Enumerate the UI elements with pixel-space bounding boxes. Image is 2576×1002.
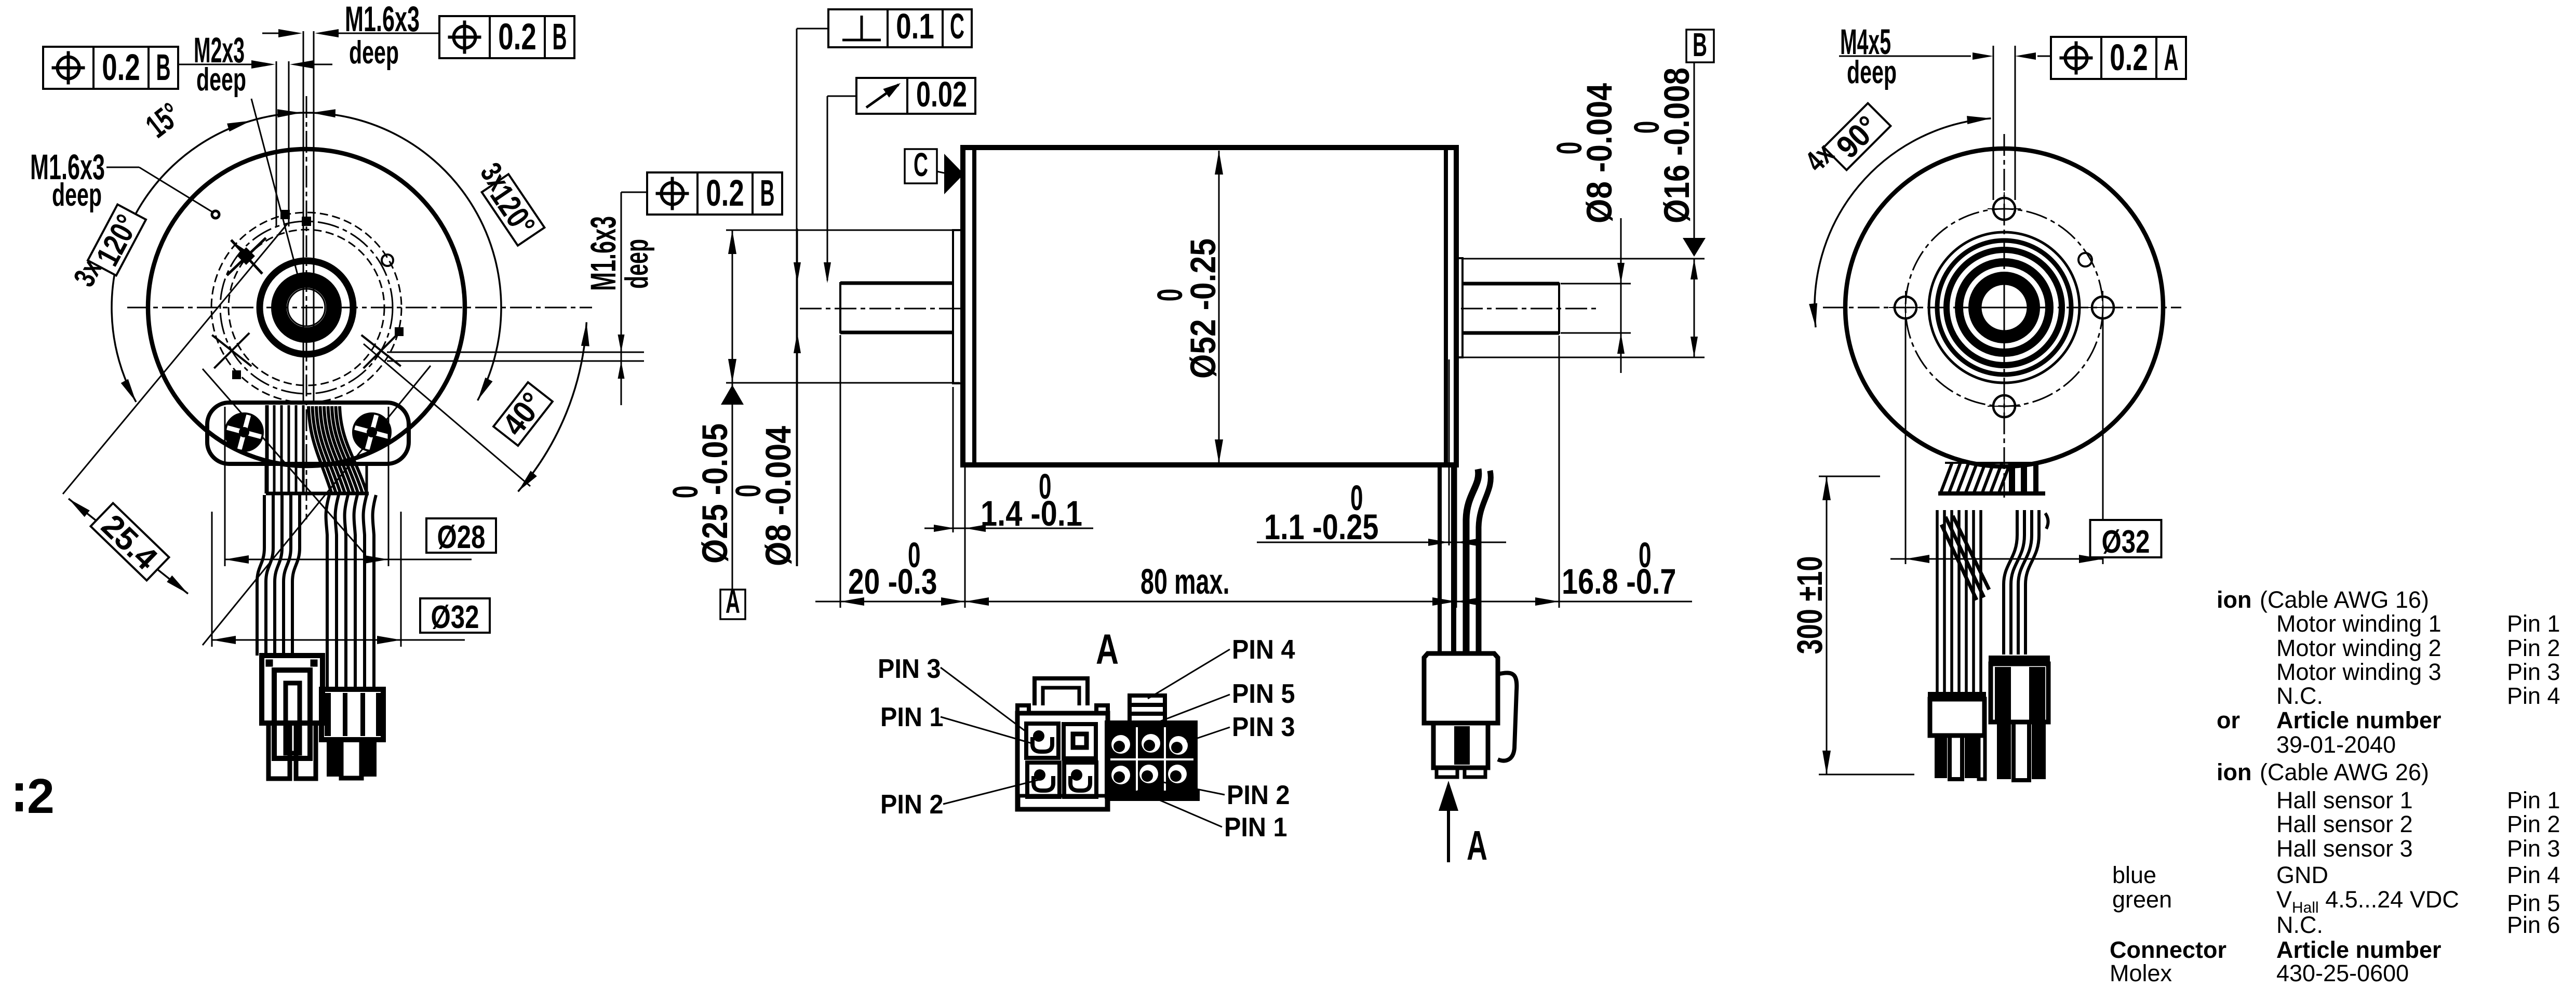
40 deg dimension arc xyxy=(518,322,587,491)
40 deg arc bottom arrow xyxy=(518,471,537,491)
svg-text:PIN 2: PIN 2 xyxy=(1227,780,1290,810)
dia8 rear dim line xyxy=(1620,218,1622,373)
datum A stem xyxy=(732,383,733,590)
datum A triangle xyxy=(721,385,744,405)
rear ring 5 xyxy=(1929,232,2079,383)
svg-text:80 max.: 80 max. xyxy=(1141,562,1230,602)
ext line M2 hole right xyxy=(288,61,290,226)
front view horizontal centerline xyxy=(127,307,592,309)
svg-text:0: 0 xyxy=(1549,142,1589,155)
runout leader h xyxy=(827,96,856,97)
svg-text:deep: deep xyxy=(619,239,655,289)
svg-text:39-01-2040: 39-01-2040 xyxy=(2276,731,2396,758)
svg-text:20 -0.3: 20 -0.3 xyxy=(848,562,937,602)
dim line 20 xyxy=(840,601,965,603)
svg-text:B: B xyxy=(1693,26,1707,63)
leader vertical from position frame xyxy=(621,192,622,405)
arc arrow at 106 deg for 15 deg dim xyxy=(227,121,251,131)
svg-text:blue: blue xyxy=(2112,862,2156,888)
svg-text:A: A xyxy=(2164,37,2179,78)
svg-text:Pin 1: Pin 1 xyxy=(2507,787,2560,813)
M4 hole xyxy=(1993,198,2015,220)
300 dim line xyxy=(1826,476,1828,774)
runout leader arrow xyxy=(824,262,831,283)
svg-text:A: A xyxy=(1467,822,1487,869)
dim line 80 xyxy=(965,601,1456,603)
25.4 extension line upper xyxy=(63,223,288,494)
arrow 80 right xyxy=(1432,597,1456,606)
rear ring 4 xyxy=(1937,241,2071,375)
dia28 arrow left xyxy=(225,555,249,564)
svg-text:ion: ion xyxy=(2217,586,2251,613)
rear center cross h xyxy=(1975,307,2033,309)
datum C triangle xyxy=(944,154,964,194)
rear cable boot hatch xyxy=(1941,462,2010,492)
boot bottom edge xyxy=(1938,491,2045,496)
arc arrow at 137 deg xyxy=(235,243,252,260)
svg-text:Molex: Molex xyxy=(2110,960,2172,986)
leader end dot xyxy=(212,211,219,218)
svg-text:Pin 6: Pin 6 xyxy=(2507,912,2560,938)
svg-text:Hall sensor 3: Hall sensor 3 xyxy=(2276,835,2413,862)
ribbon cable bend hatch xyxy=(308,406,367,492)
svg-text:GND: GND xyxy=(2276,862,2328,888)
rear shaft D8 xyxy=(1463,284,1559,333)
svg-text:16.8 -0.7: 16.8 -0.7 xyxy=(1562,562,1676,602)
svg-text:C: C xyxy=(914,146,928,183)
svg-text:0.2: 0.2 xyxy=(498,17,536,58)
svg-text:0.2: 0.2 xyxy=(102,47,140,88)
svg-text:0: 0 xyxy=(1350,478,1363,518)
rear flange inner edge xyxy=(1444,148,1448,465)
svg-text:B: B xyxy=(760,173,775,214)
dia8 front arrow bottom xyxy=(794,332,801,353)
label 120 left xyxy=(87,204,148,277)
detail left connector socket xyxy=(1064,724,1096,758)
svg-text:0: 0 xyxy=(1039,466,1052,506)
dia28 ext line left xyxy=(224,407,226,566)
marker square lower-left xyxy=(232,370,241,379)
datum C box xyxy=(905,149,937,183)
detail left connector body xyxy=(1017,678,1108,809)
M2 dim arrow left xyxy=(251,60,275,69)
left connector side view xyxy=(262,656,323,779)
label 40 deg xyxy=(492,381,555,448)
right connector side view xyxy=(321,689,383,778)
dia28 arrow right xyxy=(365,555,388,564)
svg-text:Article number: Article number xyxy=(2276,707,2441,733)
svg-text:Pin 1: Pin 1 xyxy=(2507,610,2560,637)
arrow 1.4 right xyxy=(965,525,986,532)
datum B box xyxy=(1686,30,1714,62)
dia8 rear arrow top xyxy=(1617,263,1625,284)
dia32 ext left xyxy=(1905,319,1907,564)
cable bracket outline xyxy=(207,403,409,464)
front flange outer circle D52 xyxy=(148,149,465,466)
detail right connector body xyxy=(1105,696,1200,801)
40 deg leg line xyxy=(364,344,530,486)
svg-text:Ø52 -0.25: Ø52 -0.25 xyxy=(1183,238,1223,379)
rear bolt circle xyxy=(1906,209,2103,406)
arrow 1.4 left xyxy=(934,525,955,532)
dia25 ext top xyxy=(726,230,960,231)
detail left connector socket xyxy=(1026,724,1058,758)
svg-text:(Cable AWG 16): (Cable AWG 16) xyxy=(2260,586,2429,613)
ext line rear shaft end xyxy=(1559,336,1560,608)
svg-text:0.2: 0.2 xyxy=(2110,37,2148,78)
pin leader xyxy=(1148,649,1230,699)
position tolerance frame 0.2 B upper left xyxy=(43,47,178,89)
25.4 arrow lower xyxy=(167,576,188,594)
40 deg arc top arrow xyxy=(581,322,589,346)
perp frame leader h xyxy=(797,28,828,30)
hall sensor hole front xyxy=(382,255,393,266)
arrow 20 left xyxy=(840,597,864,606)
middle view cable wires xyxy=(1440,467,1491,653)
svg-text:Pin 2: Pin 2 xyxy=(2507,635,2560,661)
pin leader xyxy=(941,717,1034,744)
svg-text:Hall sensor 1: Hall sensor 1 xyxy=(2276,787,2413,813)
right screw xyxy=(349,409,395,455)
svg-text:PIN 4: PIN 4 xyxy=(1232,635,1295,665)
svg-text:A: A xyxy=(726,583,740,620)
M2 dim arrow right xyxy=(290,60,314,69)
svg-text:0.2: 0.2 xyxy=(706,173,744,214)
construction diagonal xyxy=(203,369,365,554)
25.4 arrow upper xyxy=(69,499,90,517)
svg-text:0: 0 xyxy=(728,485,768,498)
label dia 28 xyxy=(426,518,496,555)
ext line hole right upper xyxy=(387,352,644,353)
25.4 dimension line xyxy=(69,499,188,594)
svg-text:Connector: Connector xyxy=(2110,937,2226,963)
dia32 dimension line xyxy=(212,639,465,641)
90 deg dimension arc xyxy=(1815,118,1991,327)
front view vertical centerline xyxy=(306,96,307,519)
svg-text:Ø16 -0.008: Ø16 -0.008 xyxy=(1657,68,1697,223)
rear ring 3 xyxy=(1947,250,2062,365)
arrow 16.8 left xyxy=(1456,597,1480,606)
dia16 ext bottom xyxy=(1464,357,1705,358)
dia52 dimension line xyxy=(1218,151,1220,463)
svg-text:0: 0 xyxy=(1627,121,1667,134)
ext line top hole left xyxy=(303,31,304,404)
arc arrow at 209 deg xyxy=(121,379,136,402)
dia16 arrow bottom xyxy=(1691,337,1698,357)
svg-text:Pin 4: Pin 4 xyxy=(2507,683,2560,709)
datum A box xyxy=(720,590,745,619)
svg-text:PIN 1: PIN 1 xyxy=(880,702,944,732)
svg-text:green: green xyxy=(2112,886,2172,913)
dia8 rear arrow bottom xyxy=(1617,333,1625,354)
svg-text:Hall sensor 2: Hall sensor 2 xyxy=(2276,811,2413,837)
bracket left lower edge xyxy=(265,464,267,493)
90 arc arrow top xyxy=(1967,116,1991,124)
M4 hole xyxy=(2092,297,2114,318)
svg-text:deep: deep xyxy=(349,35,399,71)
logo fragment 2 xyxy=(16,769,55,824)
M4 arrow right xyxy=(2015,52,2036,60)
dia25 arrow top xyxy=(728,230,736,254)
bolt circle dash-dot D30 xyxy=(220,221,393,394)
svg-text:deep: deep xyxy=(52,177,102,213)
motor body outline xyxy=(963,148,1456,465)
label dia 32 rear xyxy=(2090,520,2162,560)
depth dim arrow lower xyxy=(618,361,625,379)
ext line hole right lower xyxy=(387,360,644,362)
pin leader xyxy=(1187,727,1230,742)
lower-left hole cross M1.6 xyxy=(212,333,251,368)
left wire bundle xyxy=(257,495,300,656)
arc arrow right of top hole xyxy=(312,109,336,117)
svg-text:PIN 3: PIN 3 xyxy=(878,654,941,684)
svg-text:deep: deep xyxy=(1847,55,1897,90)
M1.6 dim line right part xyxy=(326,33,439,34)
M4 dim line left xyxy=(1839,56,1971,57)
rear right wire bundle xyxy=(2004,510,2048,654)
ext line rear pilot face xyxy=(1448,359,1450,545)
pin leader xyxy=(1158,694,1230,722)
svg-text:2: 2 xyxy=(27,769,55,824)
detail left connector socket xyxy=(1064,763,1096,797)
25.4 extension line lower xyxy=(203,366,431,645)
arrow 1.1 left xyxy=(1428,539,1449,546)
svg-text:PIN 5: PIN 5 xyxy=(1232,679,1295,709)
svg-text:Ø32: Ø32 xyxy=(431,599,479,635)
svg-text:0: 0 xyxy=(908,535,921,575)
90 arc arrow left xyxy=(1809,303,1817,328)
dia52 arrow top xyxy=(1215,151,1223,175)
dim line 1.1 xyxy=(1257,542,1506,543)
dia28 ext line right xyxy=(388,407,390,566)
M4 hole xyxy=(1993,395,2015,417)
pin leader xyxy=(943,779,1041,804)
svg-text:0: 0 xyxy=(1150,289,1190,302)
shaft collar ring xyxy=(279,280,334,335)
arc arrow left of top hole xyxy=(277,109,301,117)
depth dim arrow upper xyxy=(618,335,625,352)
bracket bottom edge xyxy=(266,492,369,496)
upper-left hole cross M1.6 xyxy=(227,238,266,275)
svg-text:0.1: 0.1 xyxy=(896,6,934,46)
300 ext bottom xyxy=(1819,774,1914,776)
svg-text:or: or xyxy=(2217,707,2240,733)
runout leader v xyxy=(827,96,828,280)
front flange inner edge xyxy=(972,148,976,465)
15 deg inclined extension line xyxy=(251,99,300,283)
dia8 rear ext top xyxy=(1561,283,1631,285)
svg-text:ion: ion xyxy=(2217,759,2251,785)
ext line rear body face xyxy=(1456,467,1457,608)
dia32 arrow right xyxy=(2079,555,2103,563)
dia28 dimension line xyxy=(225,559,472,560)
boot top edge xyxy=(1945,462,2044,464)
dia25 dimension line xyxy=(732,230,733,383)
ext line M2 hole left xyxy=(276,61,277,226)
ext line shaft end xyxy=(840,335,841,608)
rear right connector xyxy=(1989,656,2050,780)
dia52 arrow bottom xyxy=(1215,439,1223,463)
hidden circle D25.4 xyxy=(229,230,384,385)
front pilot ring D25 xyxy=(953,230,962,383)
detail left connector socket xyxy=(1027,763,1059,797)
rear left wire bundle xyxy=(1937,510,1989,692)
svg-text:1.4 -0.1: 1.4 -0.1 xyxy=(981,493,1082,533)
leader horizontal to position frame xyxy=(621,192,647,193)
svg-text:Pin 3: Pin 3 xyxy=(2507,835,2560,862)
runout frame 0.02 xyxy=(856,74,975,114)
rear bore circle xyxy=(1981,284,2028,331)
dia32 arrow right xyxy=(377,636,401,644)
dia32 arrow left xyxy=(1906,555,1929,563)
svg-text:Motor winding 2: Motor winding 2 xyxy=(2276,635,2441,661)
dim line 16.8 xyxy=(1456,601,1692,603)
M1.6 dim arrow left xyxy=(278,29,302,37)
svg-text:N.C.: N.C. xyxy=(2276,683,2323,709)
svg-text:Article number: Article number xyxy=(2276,937,2441,963)
svg-text:Pin 3: Pin 3 xyxy=(2507,659,2560,685)
ext line top hole right xyxy=(313,31,315,404)
svg-text:0.02: 0.02 xyxy=(916,74,967,114)
rear flange outer circle xyxy=(1845,149,2163,466)
dia16 dim line xyxy=(1694,259,1695,357)
arc arrow at -28.5 deg xyxy=(478,378,493,400)
rear left connector xyxy=(1928,692,1986,779)
dim line 20-80-16.8 row xyxy=(815,601,840,603)
rear center cross v xyxy=(2004,278,2005,337)
svg-text:PIN 2: PIN 2 xyxy=(880,790,944,820)
pin leader xyxy=(1137,791,1222,827)
dia32 ext line left xyxy=(211,512,213,647)
ext line front body face xyxy=(964,467,966,608)
arrow 16.8 right xyxy=(1535,597,1559,606)
perp frame leader v xyxy=(796,29,798,566)
M4 hole xyxy=(1895,297,1916,318)
M4 ext line left xyxy=(1993,46,1994,200)
300 arrow top xyxy=(1822,476,1831,500)
label 90 deg xyxy=(1823,102,1893,172)
M1.6 dim arrow right xyxy=(315,29,339,37)
svg-text:300 ±10: 300 ±10 xyxy=(1790,556,1830,654)
pin leader xyxy=(941,667,1026,731)
dia32 ext right xyxy=(2102,319,2104,564)
label 25.4 xyxy=(89,502,170,582)
arrow 80 left xyxy=(965,597,989,606)
svg-text:Motor winding 3: Motor winding 3 xyxy=(2276,659,2441,685)
M2 dim line right part xyxy=(301,64,332,65)
M4 dim line right xyxy=(2037,56,2052,57)
rear hall hole xyxy=(2078,253,2092,266)
svg-text:C: C xyxy=(950,6,964,46)
rear ring 1 xyxy=(1975,278,2034,337)
bearing outer ring xyxy=(260,261,353,354)
dim line 1.4 xyxy=(924,528,1093,529)
svg-text:Pin 2: Pin 2 xyxy=(2507,811,2560,837)
dia32 dim line xyxy=(1890,558,2103,560)
dia8 front dim line xyxy=(797,229,798,566)
left screw xyxy=(221,409,267,455)
svg-text:PIN 3: PIN 3 xyxy=(1232,712,1295,742)
position tolerance frame 0.2 B top right xyxy=(439,16,574,58)
dia16 arrow top xyxy=(1691,259,1698,279)
label 120 right xyxy=(479,173,545,247)
angular dimension arc 3x120 xyxy=(112,113,501,402)
svg-text:Motor winding 1: Motor winding 1 xyxy=(2276,610,2441,637)
svg-text:A: A xyxy=(1096,626,1119,673)
position tolerance frame 0.2 B middle xyxy=(647,172,782,215)
side view centerline xyxy=(800,308,1600,310)
bearing balls dotted circle xyxy=(284,285,329,330)
top hole marker M1.6 xyxy=(302,217,311,226)
dia8 rear ext bottom xyxy=(1561,332,1631,334)
svg-text:Ø32: Ø32 xyxy=(2102,524,2150,560)
section arrow head xyxy=(1439,781,1458,811)
rear boot stripes xyxy=(2009,464,2038,492)
svg-text:deep: deep xyxy=(196,62,246,98)
M4 arrow left xyxy=(1973,52,1993,60)
dia25 ext bottom xyxy=(726,382,960,384)
datum B triangle xyxy=(1683,238,1706,257)
svg-text:430-25-0600: 430-25-0600 xyxy=(2276,960,2409,986)
datum C connector xyxy=(937,171,944,173)
M1.6 dim line left part xyxy=(262,33,291,34)
rear ring 2 xyxy=(1959,262,2049,353)
shaft bore circle xyxy=(288,289,325,326)
ext line pilot face xyxy=(952,387,954,532)
lower-right hole cross M1.6 xyxy=(361,333,401,368)
svg-text:M1.6x3: M1.6x3 xyxy=(583,216,623,291)
svg-text:0: 0 xyxy=(1639,535,1652,575)
300 arrow bottom xyxy=(1822,751,1831,774)
svg-text:0: 0 xyxy=(665,486,705,499)
svg-text:(Cable AWG 26): (Cable AWG 26) xyxy=(2260,759,2429,785)
leader from M1.6x3 label xyxy=(106,167,139,168)
dia25 arrow bottom xyxy=(728,359,736,383)
M2 hole marker at 105 deg xyxy=(280,210,290,219)
dia16 ext top xyxy=(1464,258,1705,260)
svg-text:B: B xyxy=(156,47,171,88)
dia32 arrow left xyxy=(212,636,236,644)
pin leader xyxy=(1161,782,1225,795)
hidden circle outer xyxy=(211,212,401,403)
dia8 front arrow top xyxy=(794,262,801,283)
rear view horizontal centerline xyxy=(1823,307,2181,309)
position frame 0.2 A xyxy=(2051,37,2186,79)
datum B stem xyxy=(1694,62,1695,240)
marker square lower-right xyxy=(395,327,404,336)
M4 ext line right xyxy=(2015,46,2016,200)
right wire bundle xyxy=(326,495,377,691)
perpendicularity frame 0.1 C xyxy=(828,6,972,47)
arrow 1.1 right xyxy=(1456,539,1477,546)
rear view vertical centerline xyxy=(2004,134,2005,498)
300 ext top xyxy=(1819,476,1880,477)
rear pilot ring D16 xyxy=(1456,258,1463,357)
svg-text:Pin 4: Pin 4 xyxy=(2507,862,2560,888)
middle view connector xyxy=(1424,653,1517,777)
ribbon cable stripes xyxy=(267,405,303,493)
label dia 32 left view xyxy=(420,598,490,635)
M2 dim line left part xyxy=(178,64,264,65)
section arrow line xyxy=(1447,810,1450,862)
svg-text:PIN 1: PIN 1 xyxy=(1224,812,1287,843)
bracket right lower edge xyxy=(366,464,368,493)
svg-text:B: B xyxy=(553,17,567,58)
front shaft D8 xyxy=(840,283,953,332)
svg-text:M1.6x3: M1.6x3 xyxy=(345,0,420,39)
svg-text:Ø28: Ø28 xyxy=(437,519,486,555)
dia32 ext line right xyxy=(400,512,402,647)
